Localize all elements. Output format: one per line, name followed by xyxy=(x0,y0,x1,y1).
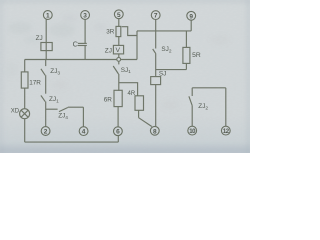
svg-text:8: 8 xyxy=(153,128,157,135)
svg-text:4R: 4R xyxy=(128,91,136,97)
svg-text:6: 6 xyxy=(116,129,120,136)
svg-text:XD: XD xyxy=(11,109,20,115)
svg-text:4: 4 xyxy=(82,129,86,136)
svg-text:3R: 3R xyxy=(106,29,115,36)
svg-text:1: 1 xyxy=(46,13,50,20)
svg-text:SJ: SJ xyxy=(159,71,166,78)
svg-text:5: 5 xyxy=(117,12,121,19)
svg-text:6R: 6R xyxy=(104,96,113,103)
svg-text:5R: 5R xyxy=(192,52,201,59)
svg-text:3: 3 xyxy=(83,13,87,20)
svg-text:9: 9 xyxy=(189,13,193,20)
svg-text:C: C xyxy=(73,39,79,48)
svg-text:7: 7 xyxy=(154,13,158,20)
svg-text:V: V xyxy=(116,47,121,54)
svg-text:2: 2 xyxy=(44,129,48,136)
svg-text:ZJ: ZJ xyxy=(105,47,112,54)
svg-text:17R: 17R xyxy=(29,79,41,86)
svg-text:ZJ: ZJ xyxy=(36,35,43,42)
